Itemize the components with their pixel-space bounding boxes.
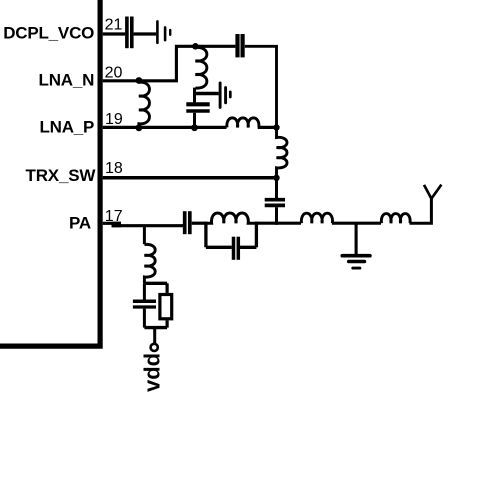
ground (sideways) at pin21	[157, 21, 170, 42]
wire C1 to ground	[134, 32, 157, 35]
svg-text:20: 20	[105, 65, 123, 82]
node A junction dot	[192, 43, 199, 50]
ground (sideways) at node	[220, 83, 230, 108]
wire L6 to L7 with ground tap	[332, 222, 381, 225]
inductor L2 (vertical, pin20 branch)	[195, 47, 206, 88]
wire L7 to antenna	[410, 198, 432, 224]
svg-text:PA: PA	[69, 214, 91, 233]
wire pin19	[103, 126, 227, 129]
inductor L3 (horizontal on pin19 line)	[227, 118, 259, 128]
wire to resistor R1 top	[166, 283, 169, 293]
wire resistor R1 bottom	[166, 320, 169, 327]
svg-text:LNA_N: LNA_N	[39, 70, 95, 89]
wire pin17 branch down	[143, 226, 146, 245]
wire node D down to C4	[275, 178, 278, 198]
LC tank left edge wire	[204, 222, 207, 248]
LC tank right edge wire	[255, 222, 258, 248]
capacitor C1	[127, 17, 132, 49]
wire L3 to node C	[258, 126, 277, 129]
wire branch to ground	[195, 92, 219, 96]
wire RC network top connector	[144, 282, 167, 285]
capacitor C7 (vdd bypass)	[133, 301, 156, 307]
inductor L4 (vertical, node C to pin18 line)	[277, 128, 288, 178]
IC body edge (chip outline corner)	[0, 0, 100, 346]
wire C2 to corner down to node C	[245, 46, 277, 127]
node at pin20 junction dot	[136, 77, 143, 84]
vdd terminal circle	[151, 344, 158, 351]
inductor L8 (vdd feed)	[144, 244, 155, 283]
wire stem to vdd terminal	[153, 328, 156, 344]
inductor L5 (tank top)	[206, 213, 257, 223]
node B junction dot	[191, 124, 198, 131]
resistor R1	[160, 295, 172, 319]
wire pin17 stub	[103, 222, 121, 225]
wire PA segment A	[112, 224, 183, 227]
node at pin19 junction dot	[136, 124, 143, 131]
wire cap branch upper	[143, 283, 146, 299]
LC tank bottom wire left	[206, 246, 232, 249]
wire pin18	[103, 176, 277, 180]
wire ground stem	[355, 223, 358, 256]
capacitor C6 (tank)	[234, 237, 239, 260]
svg-text:21: 21	[105, 16, 123, 33]
wire C4 to PA line	[275, 207, 278, 225]
svg-text:18: 18	[105, 160, 123, 177]
junction overlap on pin17	[112, 222, 122, 228]
wire C3 to pin19 line	[193, 113, 196, 128]
wire L2 to C3	[193, 88, 196, 103]
wire pin20 up and across to C2	[103, 46, 236, 81]
node C junction dot	[273, 124, 279, 130]
inductor L1 (vertical, LNA_N to LNA_P)	[139, 82, 150, 126]
wire tank to L6 (through node E)	[256, 222, 301, 225]
capacitor C4	[265, 200, 285, 206]
ground at PA network	[342, 256, 370, 268]
inductor L6	[301, 213, 332, 223]
wire pin21 to C1	[103, 32, 126, 35]
wire C5 to LC tank	[192, 222, 206, 225]
antenna ANT	[424, 185, 441, 199]
LC tank bottom wire right	[240, 246, 256, 249]
svg-text:TRX_SW: TRX_SW	[26, 166, 97, 185]
wire RC network bottom connector	[144, 326, 167, 329]
inductor L7	[381, 214, 410, 224]
capacitor C3	[186, 104, 209, 111]
capacitor C5 (series on PA line)	[185, 211, 190, 234]
capacitor C2	[238, 34, 243, 57]
svg-text:DCPL_VCO: DCPL_VCO	[3, 23, 94, 42]
node D junction dot	[273, 175, 279, 181]
svg-text:vdd: vdd	[140, 353, 165, 392]
wire cap branch lower	[143, 309, 146, 328]
svg-text:LNA_P: LNA_P	[39, 117, 94, 136]
svg-text:19: 19	[105, 111, 123, 128]
